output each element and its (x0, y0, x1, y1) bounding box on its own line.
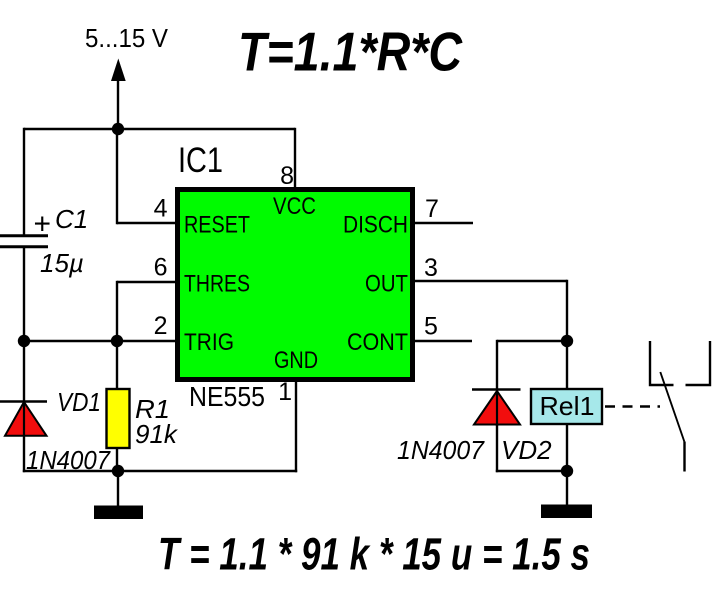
svg-text:C1: C1 (55, 204, 88, 234)
svg-text:5...15 V: 5...15 V (85, 23, 169, 53)
wire pin 1 riser (295, 377, 297, 472)
wire VD2 bottom lead (496, 425, 567, 472)
wire ground stub left (117, 471, 119, 506)
wire Rel1 bottom lead (566, 424, 568, 505)
wire VD2 top link (497, 340, 567, 390)
svg-text:7: 7 (425, 195, 439, 223)
wire TRIG row to IC (24, 340, 177, 342)
svg-text:91k: 91k (135, 419, 179, 449)
svg-text:T = 1.1 * 91 k * 15 u = 1.5 s: T = 1.1 * 91 k * 15 u = 1.5 s (158, 529, 590, 580)
svg-text:CONT: CONT (347, 329, 408, 356)
svg-text:GND: GND (274, 347, 318, 374)
resistor R1 (107, 389, 130, 448)
wire left branch upper (23, 128, 25, 236)
capacitor C1 (0, 236, 48, 247)
svg-text:VD1: VD1 (57, 387, 101, 417)
svg-text:15µ: 15µ (40, 248, 84, 278)
svg-text:+: + (34, 208, 52, 241)
power arrow (111, 59, 126, 130)
wire VCC rail horizontal (24, 128, 295, 130)
svg-text:Rel1: Rel1 (540, 391, 595, 421)
wire left branch to VD1 (23, 341, 25, 401)
relay coil Rel1 (531, 389, 602, 424)
svg-text:VD2: VD2 (501, 435, 552, 465)
wire pin 6 THRES (117, 281, 177, 341)
IC IC1 body (NE555 timer, green box) (178, 190, 413, 380)
wire pin 4 RESET (117, 128, 177, 224)
relay contact terminals (650, 341, 710, 385)
wire R1 bottom lead (116, 448, 118, 471)
ground left (94, 506, 143, 520)
node TRIG-left junction (18, 335, 30, 347)
svg-text:OUT: OUT (365, 271, 408, 298)
svg-text:VCC: VCC (273, 193, 316, 220)
wire pin 3 OUT (413, 280, 567, 390)
wire pin 8 drop to IC (294, 128, 296, 190)
ground right (541, 505, 592, 519)
node TRIG junction (111, 335, 123, 347)
node ground-rail junction (112, 465, 124, 477)
svg-text:T=1.1*R*C: T=1.1*R*C (238, 21, 463, 83)
diode VD1 (0, 402, 47, 438)
svg-text:DISCH: DISCH (343, 212, 408, 239)
svg-text:1N4007: 1N4007 (397, 435, 485, 465)
svg-text:IC1: IC1 (178, 141, 223, 180)
svg-text:TRIG: TRIG (184, 329, 234, 356)
svg-text:NE555: NE555 (189, 381, 265, 412)
wire pin 5 CONT stub (413, 340, 472, 342)
relay contact lever (660, 372, 684, 472)
node OUT junction (561, 335, 573, 347)
svg-text:5: 5 (424, 313, 438, 341)
wire bottom ground rail (23, 470, 297, 472)
svg-text:4: 4 (154, 195, 168, 223)
wire left branch middle (23, 247, 25, 342)
wire R1 top lead (116, 341, 118, 390)
wire pin 7 DISCH stub (413, 222, 473, 224)
svg-text:6: 6 (154, 254, 168, 282)
wire VD1 anode down (23, 437, 25, 472)
svg-text:THRES: THRES (184, 271, 250, 298)
svg-text:RESET: RESET (184, 212, 250, 239)
node VCC junction (112, 123, 124, 135)
node Rel1-ground junction (561, 465, 573, 477)
diode VD2 (472, 390, 521, 427)
svg-text:3: 3 (424, 254, 438, 282)
svg-text:2: 2 (154, 312, 168, 340)
dashed actuator link (605, 405, 660, 407)
svg-text:8: 8 (280, 162, 294, 190)
svg-text:1: 1 (278, 378, 292, 406)
